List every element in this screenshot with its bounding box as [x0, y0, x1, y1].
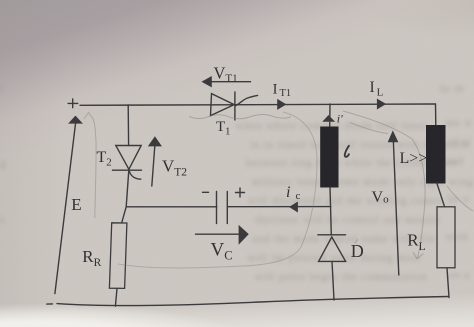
pencil annotation curves (decorative): [84, 111, 473, 268]
capacitor C plate right: [226, 192, 228, 224]
arrow IL (head on top rail): [377, 99, 385, 109]
wire T2 to capacitor node: [126, 170, 129, 207]
arrow i prime (head on inductor branch): [323, 116, 334, 122]
capacitor plus sign: [236, 188, 245, 197]
wire RR to bottom rail: [115, 288, 117, 306]
node plus terminal of E: [68, 99, 78, 108]
wire capacitor right: [228, 206, 331, 208]
capacitor minus sign: [203, 191, 209, 193]
source E polarity arrow: [69, 116, 82, 123]
wire inductor L to RL: [437, 183, 445, 207]
label minus terminal: [47, 303, 53, 305]
resistor RR: [109, 223, 127, 289]
inductor L load (solid): [427, 126, 446, 184]
arrow ic (head on capacitor wire): [290, 202, 298, 212]
wire bottom rail: [57, 297, 449, 306]
resistor RL: [437, 207, 455, 268]
arrow VC: [196, 226, 249, 244]
arrow IT1 (head on top rail): [278, 100, 286, 110]
arrow VT2: [149, 137, 162, 186]
diode D: [318, 235, 346, 262]
arrow VT1: [202, 77, 250, 87]
wire RL to bottom rail: [447, 268, 449, 298]
wire inductor branch top: [329, 104, 331, 127]
inductor i (commutation, solid): [321, 127, 338, 187]
capacitor C plate left: [216, 192, 218, 224]
label l (script ell): [345, 146, 349, 157]
thyristor T2: [113, 146, 142, 180]
wire diode to bottom rail: [332, 261, 334, 300]
wire load branch top: [435, 104, 437, 126]
wire top rail: [80, 104, 436, 105]
arrow Vo: [388, 131, 399, 275]
wire left branch E: [55, 122, 76, 294]
thyristor T1: [211, 92, 258, 120]
wire inductor to diode: [330, 187, 331, 235]
wire capacitor node to RR: [122, 207, 127, 223]
wire capacitor left: [126, 206, 217, 208]
wire T2 branch top: [127, 105, 129, 146]
